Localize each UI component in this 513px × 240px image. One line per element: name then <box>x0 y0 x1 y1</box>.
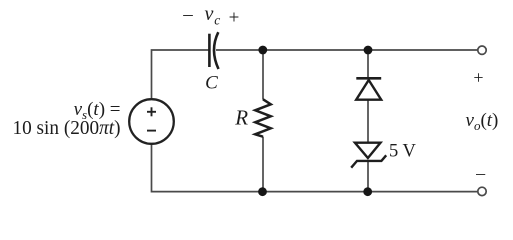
node D junction dot <box>363 187 372 196</box>
wire resistor branch lower <box>262 137 264 192</box>
wire bottom rail <box>152 144 478 192</box>
output terminal top <box>478 46 486 54</box>
output terminal bottom <box>478 187 486 195</box>
svg-text:+: + <box>229 7 240 28</box>
wire between diode D1 and zener D2 <box>367 100 369 143</box>
svg-text:10 sin (200πt): 10 sin (200πt) <box>13 117 121 139</box>
svg-text:c: c <box>214 12 220 27</box>
wire top from node B to output terminal <box>368 49 478 51</box>
capacitor voltage label - vc + <box>182 3 239 28</box>
zener diode D2 <box>351 143 386 168</box>
svg-text:vo(t): vo(t) <box>466 110 499 133</box>
node A junction dot <box>258 46 267 55</box>
svg-text:–: – <box>182 4 193 25</box>
svg-text:R: R <box>234 106 248 130</box>
wire diode branch upper <box>367 50 369 78</box>
node C junction dot <box>258 187 267 196</box>
wire top-left from source to capacitor <box>152 50 210 100</box>
wire top from node A to node B <box>263 49 368 51</box>
node B junction dot <box>364 46 373 55</box>
wire resistor branch upper <box>262 50 264 100</box>
wire top from capacitor to node A <box>216 49 263 51</box>
svg-text:+: + <box>473 68 483 88</box>
capacitor C <box>209 32 218 69</box>
svg-text:5 V: 5 V <box>389 142 417 162</box>
svg-text:C: C <box>205 73 218 94</box>
svg-text:–: – <box>475 163 486 183</box>
wire zener branch lower <box>367 161 369 192</box>
svg-text:v: v <box>205 3 214 25</box>
voltage source Vs <box>129 99 174 144</box>
resistor R <box>255 99 271 136</box>
diode D1 <box>356 78 381 99</box>
voltage source label vs(t) = 10 sin (200pi t) <box>13 99 121 139</box>
